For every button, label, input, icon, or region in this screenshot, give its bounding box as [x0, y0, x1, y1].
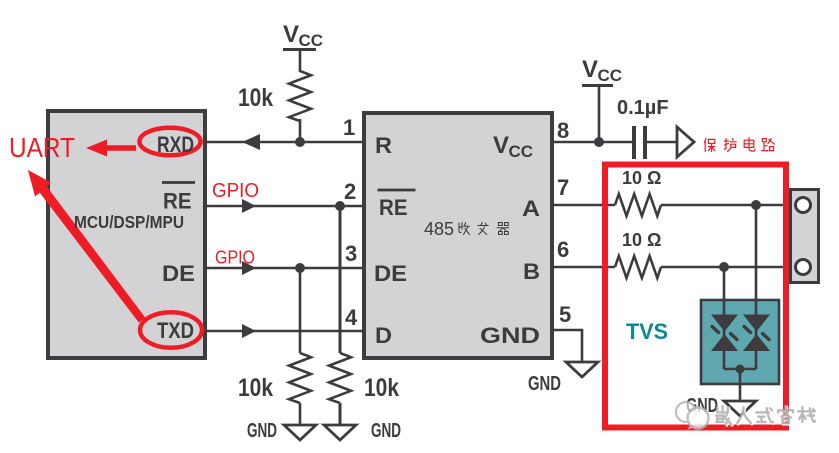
svg-text:4: 4 [345, 305, 358, 330]
svg-text:R: R [375, 133, 392, 158]
svg-text:GND: GND [480, 323, 540, 348]
svg-text:GND: GND [247, 420, 277, 442]
svg-text:DE: DE [162, 261, 195, 286]
svg-text:10k: 10k [364, 374, 399, 402]
svg-text:CC: CC [299, 31, 324, 50]
svg-text:10k: 10k [238, 84, 273, 112]
svg-text:V: V [493, 132, 509, 159]
svg-text:GPIO: GPIO [212, 180, 259, 202]
svg-text:GND: GND [371, 420, 401, 442]
svg-text:TVS: TVS [626, 319, 668, 344]
svg-text:MCU/DSP/MPU: MCU/DSP/MPU [74, 212, 184, 232]
svg-text:V: V [283, 21, 299, 48]
svg-text:DE: DE [374, 261, 407, 286]
svg-text:B: B [523, 259, 540, 284]
svg-text:1: 1 [343, 115, 355, 140]
svg-text:GPIO: GPIO [215, 248, 255, 268]
svg-text:CC: CC [598, 66, 623, 85]
svg-text:V: V [582, 56, 598, 83]
svg-text:RE: RE [163, 189, 192, 214]
svg-text:RE: RE [379, 195, 408, 220]
svg-text:GND: GND [528, 373, 561, 395]
svg-text:10 Ω: 10 Ω [622, 230, 661, 250]
svg-text:D: D [375, 323, 392, 348]
svg-text:CC: CC [509, 142, 534, 161]
svg-text:6: 6 [557, 237, 569, 262]
svg-text:0.1µF: 0.1µF [617, 97, 669, 119]
svg-text:10k: 10k [238, 374, 273, 402]
svg-text:485: 485 [424, 219, 454, 239]
svg-text:5: 5 [559, 302, 571, 327]
svg-text:TXD: TXD [157, 318, 194, 343]
svg-text:7: 7 [557, 175, 569, 200]
svg-text:UART: UART [9, 132, 75, 163]
svg-text:A: A [522, 196, 540, 221]
svg-text:2: 2 [344, 179, 356, 204]
svg-text:RXD: RXD [157, 132, 194, 157]
svg-text:8: 8 [557, 118, 569, 143]
svg-text:3: 3 [345, 241, 357, 266]
svg-text:10 Ω: 10 Ω [622, 168, 661, 188]
